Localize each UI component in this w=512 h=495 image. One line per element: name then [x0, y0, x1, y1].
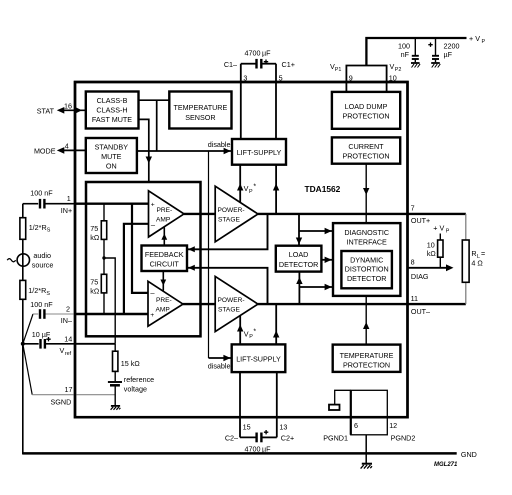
wire SGND line with pin 17 — [32, 394, 115, 396]
svg-text:4700 µF: 4700 µF — [245, 444, 272, 453]
block STANDBY MUTE ON — [86, 138, 137, 173]
svg-text:AMP: AMP — [156, 216, 171, 223]
svg-text:R: R — [471, 249, 476, 258]
svg-text:P: P — [482, 39, 486, 45]
svg-text:1/2*R: 1/2*R — [28, 286, 46, 295]
wire FEEDBACK to upper PRE-AMP — [163, 228, 165, 246]
svg-text:PRE-: PRE- — [156, 297, 172, 304]
svg-text:PGND2: PGND2 — [391, 434, 416, 443]
wire node to GND rail — [22, 344, 24, 455]
wire Vp* boost to lower POWER-STAGE — [239, 316, 241, 344]
svg-text:P: P — [446, 229, 450, 235]
svg-text:6: 6 — [354, 421, 358, 430]
capacitor 10 uF (Vref) — [32, 330, 51, 349]
wire Vp* boost to upper POWER-STAGE — [239, 165, 241, 203]
svg-text:17: 17 — [65, 385, 73, 394]
svg-text:S: S — [46, 291, 50, 297]
svg-text:POWER-: POWER- — [218, 297, 245, 304]
svg-text:voltage: voltage — [124, 385, 147, 394]
svg-text:MODE: MODE — [34, 147, 56, 156]
svg-text:C2+: C2+ — [281, 434, 294, 443]
wire PRE-AMP to POWER-STAGE (lower) — [183, 303, 215, 305]
svg-text:1/2*R: 1/2*R — [29, 223, 47, 232]
substrate contact — [329, 405, 340, 410]
svg-text:LIFT-SUPPLY: LIFT-SUPPLY — [237, 148, 282, 157]
mute arrow into input stage — [146, 157, 152, 164]
svg-text:V: V — [244, 329, 249, 338]
svg-text:FEEDBACK: FEEDBACK — [145, 250, 184, 259]
svg-text:ref: ref — [65, 351, 72, 357]
capacitor 2200 uF reservoir — [428, 38, 459, 62]
wire pad to GND rail — [365, 435, 367, 454]
svg-text:16: 16 — [64, 101, 72, 110]
pin 10 lead into LOAD DUMP — [386, 82, 388, 92]
wire GND rail — [23, 452, 457, 455]
svg-text:FAST MUTE: FAST MUTE — [92, 115, 132, 124]
svg-text:IN–: IN– — [61, 316, 72, 325]
node common input — [21, 342, 25, 346]
svg-text:CLASS-H: CLASS-H — [96, 106, 127, 115]
svg-text:µF: µF — [444, 50, 453, 59]
wire OUT+ from POWER-STAGE to pin 7 — [258, 213, 408, 215]
wire PRE-AMP to POWER-STAGE (upper) — [184, 213, 215, 215]
source resistor 1/2*Rs (upper) — [20, 204, 51, 240]
block LOAD DETECTOR — [276, 246, 322, 272]
wire lower PRE-AMP inverting input from IN+ — [132, 204, 148, 293]
resistor 10 kOhm pull-up with + Vp — [427, 224, 450, 268]
svg-text:+: + — [151, 202, 155, 209]
ground for 2200 uF — [431, 63, 440, 68]
svg-text:audio: audio — [33, 251, 51, 260]
op-amp POWER-STAGE lower — [215, 276, 258, 331]
svg-text:1: 1 — [67, 194, 71, 203]
block DIAGNOSTIC INTERFACE — [333, 223, 400, 296]
ground for reference — [111, 405, 120, 407]
svg-text:=: = — [481, 249, 485, 258]
svg-text:2: 2 — [66, 305, 70, 314]
wire pin 5 C1+ — [275, 64, 277, 139]
wire divider mid node — [103, 239, 105, 274]
wire FAST MUTE output — [139, 119, 149, 182]
block CURRENT PROTECTION — [332, 137, 400, 163]
svg-text:PGND1: PGND1 — [323, 434, 348, 443]
svg-text:CLASS-B: CLASS-B — [97, 96, 128, 105]
wire branch to DIAGNOSTIC INTERFACE (lower) — [299, 286, 333, 288]
svg-text:LIFT-SUPPLY: LIFT-SUPPLY — [236, 355, 281, 364]
svg-text:V: V — [244, 184, 249, 193]
svg-text:STANDBY: STANDBY — [95, 143, 129, 152]
svg-text:OUT–: OUT– — [411, 307, 430, 316]
wire pin 13 C2+ — [276, 372, 278, 437]
wire OUT- from POWER-STAGE to pin 11 — [258, 303, 408, 305]
svg-text:STAGE: STAGE — [218, 307, 240, 314]
wire IN+ line with pin 1 — [45, 203, 75, 205]
resistor 15 kOhm — [113, 344, 141, 372]
svg-text:V: V — [60, 346, 65, 355]
svg-text:P2: P2 — [395, 67, 402, 73]
svg-text:kΩ: kΩ — [427, 249, 437, 258]
svg-text:13: 13 — [279, 423, 287, 432]
wire jog to Vref — [104, 258, 115, 344]
IC main outline TDA1562 — [75, 82, 408, 417]
block CLASS-B CLASS-H FAST MUTE — [86, 92, 139, 129]
svg-text:10 µF: 10 µF — [32, 330, 51, 339]
stub to substrate contact — [335, 390, 351, 404]
svg-text:S: S — [47, 228, 51, 234]
svg-text:75: 75 — [90, 278, 98, 287]
capacitor 100 nF decoupling — [398, 38, 419, 62]
svg-text:8: 8 — [411, 257, 415, 266]
wire Vp1/Vp2 pad — [346, 66, 386, 83]
svg-text:GND: GND — [461, 450, 477, 459]
block LIFT-SUPPLY upper — [232, 139, 286, 165]
svg-text:4700 µF: 4700 µF — [245, 49, 272, 58]
wire down to common node — [22, 299, 24, 344]
arrow into LIFT-SUPPLY — [224, 148, 231, 154]
svg-text:100 nF: 100 nF — [30, 189, 53, 198]
svg-text:TDA1562: TDA1562 — [305, 184, 341, 194]
wire pin 15 C2- — [239, 372, 241, 437]
wire disable vertical run — [208, 151, 210, 358]
wire upper PRE-AMP inverting input from IN- — [124, 224, 149, 314]
svg-text:PRE-: PRE- — [157, 207, 173, 214]
svg-text:PROTECTION: PROTECTION — [342, 112, 389, 121]
wire LOAD DETECTOR to DIAGNOSTIC INTERFACE — [321, 259, 333, 261]
svg-text:POWER-: POWER- — [218, 207, 245, 214]
svg-text:4 Ω: 4 Ω — [471, 259, 483, 268]
svg-text:100 nF: 100 nF — [30, 300, 53, 309]
block TEMPERATURE SENSOR — [169, 92, 231, 129]
pin 6 lead (thick left edge) — [350, 390, 352, 435]
capacitor 100 nF (IN+) — [30, 189, 53, 209]
svg-text:MGL271: MGL271 — [434, 462, 458, 468]
svg-text:reference: reference — [124, 375, 154, 384]
svg-text:OUT+: OUT+ — [411, 216, 430, 225]
wire disable (lower) — [209, 357, 232, 359]
svg-text:11: 11 — [411, 294, 418, 303]
svg-text:disable: disable — [208, 140, 231, 149]
svg-text:nF: nF — [401, 50, 410, 59]
wire diagonal to SGND — [23, 344, 32, 395]
block TEMPERATURE PROTECTION — [333, 345, 401, 372]
svg-text:15: 15 — [243, 423, 251, 432]
svg-text:DIAG: DIAG — [411, 272, 429, 281]
svg-text:P1: P1 — [335, 67, 342, 73]
wire OUT+ into LOAD DETECTOR — [298, 214, 300, 246]
svg-text:+ V: + V — [433, 224, 444, 233]
svg-text:PROTECTION: PROTECTION — [342, 152, 389, 161]
block LOAD DUMP PROTECTION — [332, 92, 400, 129]
svg-text:7: 7 — [411, 204, 415, 213]
capacitor 100 nF (IN-) — [30, 300, 53, 319]
wire OUT- down to lower LIFT-SUPPLY — [275, 304, 277, 344]
svg-text:ON: ON — [106, 162, 117, 171]
capacitor C2 4700uF — [240, 430, 277, 453]
pin 16 STAT line — [37, 101, 86, 115]
svg-text:source: source — [32, 261, 54, 270]
op-amp PRE-AMP upper — [149, 191, 185, 237]
svg-text:TEMPERATURE: TEMPERATURE — [340, 351, 394, 360]
svg-text:kΩ: kΩ — [90, 233, 100, 242]
wire disable (upper) — [137, 150, 232, 152]
wire pin 7 OUT+ — [408, 213, 466, 215]
source resistor 1/2*Rs (lower) — [20, 266, 51, 299]
svg-text:MUTE: MUTE — [101, 152, 122, 161]
svg-text:DETECTOR: DETECTOR — [347, 274, 386, 283]
svg-text:V: V — [390, 62, 395, 71]
svg-text:C1+: C1+ — [282, 60, 295, 69]
wire +Vp drop — [366, 38, 466, 66]
svg-text:DIAGNOSTIC: DIAGNOSTIC — [344, 228, 389, 237]
svg-text:*: * — [253, 329, 256, 336]
svg-text:AMP: AMP — [156, 307, 171, 314]
pin 9 lead into LOAD DUMP — [345, 82, 347, 92]
wire pin 3 C1- — [240, 64, 242, 139]
battery reference voltage — [108, 371, 154, 405]
wire IN- line with pin 2 — [33, 313, 38, 315]
svg-text:CIRCUIT: CIRCUIT — [150, 260, 180, 269]
resistor 75 kOhm (upper) — [90, 204, 106, 242]
svg-text:P: P — [249, 189, 253, 195]
svg-text:75: 75 — [90, 224, 98, 233]
svg-text:INTERFACE: INTERFACE — [347, 238, 388, 247]
wire CURRENT PROTECTION to DIAGNOSTIC INTERFACE — [365, 164, 367, 223]
op-amp PRE-AMP lower — [148, 281, 183, 326]
svg-text:DISTORTION: DISTORTION — [345, 265, 389, 274]
wire LIFT-SUPPLY to OUT+ rail — [275, 165, 277, 214]
svg-text:14: 14 — [64, 334, 72, 343]
svg-text:C2–: C2– — [225, 434, 238, 443]
wire branch to DIAGNOSTIC INTERFACE (upper) — [299, 230, 333, 232]
block LIFT-SUPPLY lower — [232, 344, 286, 372]
block DYNAMIC DISTORTION DETECTOR — [341, 251, 392, 288]
svg-text:+ V: + V — [469, 34, 480, 43]
wire OUT- into LOAD DETECTOR — [298, 272, 300, 305]
svg-text:15 kΩ: 15 kΩ — [121, 359, 141, 368]
load resistor RL 4 Ohm — [462, 214, 485, 304]
block FEEDBACK CIRCUIT — [142, 246, 188, 272]
pin 4 MODE line — [34, 141, 86, 155]
ground for 100 nF — [411, 63, 420, 68]
svg-text:STAGE: STAGE — [218, 216, 240, 223]
svg-text:SENSOR: SENSOR — [185, 113, 215, 122]
wire pin 11 OUT- — [408, 303, 466, 305]
wire Vref line with pin 14 — [23, 343, 39, 345]
resistor 75 kOhm (lower) — [90, 274, 106, 314]
wire TEMPERATURE PROTECTION to DIAGNOSTIC INTERFACE — [365, 296, 367, 345]
op-amp POWER-STAGE upper — [215, 186, 258, 242]
pad outline pins 6 / 12 — [351, 390, 388, 435]
svg-text:+: + — [150, 312, 154, 319]
IC main outline overlay — [75, 82, 408, 417]
inner input-stage box — [86, 182, 201, 336]
svg-text:disable: disable — [208, 361, 231, 370]
wire FEEDBACK to lower PRE-AMP — [162, 271, 164, 291]
audio source — [7, 239, 53, 269]
svg-text:kΩ: kΩ — [90, 287, 100, 296]
svg-text:LOAD DUMP: LOAD DUMP — [345, 102, 388, 111]
svg-text:STAT: STAT — [37, 107, 55, 116]
svg-text:TEMPERATURE: TEMPERATURE — [174, 103, 228, 112]
svg-text:PROTECTION: PROTECTION — [343, 361, 390, 370]
svg-text:4: 4 — [65, 141, 69, 150]
capacitor C1 4700uF — [241, 49, 276, 69]
wire OUT+ feedback tap — [187, 214, 268, 249]
wire junction down to disable line — [156, 100, 158, 151]
svg-text:*: * — [253, 184, 256, 191]
svg-text:CURRENT: CURRENT — [348, 142, 384, 151]
svg-text:DETECTOR: DETECTOR — [279, 260, 318, 269]
wire CLASS-B to TEMPERATURE SENSOR — [139, 99, 170, 101]
wire OUT- feedback tap — [187, 268, 268, 304]
svg-text:SGND: SGND — [51, 397, 72, 406]
svg-text:C1–: C1– — [224, 60, 237, 69]
svg-text:DYNAMIC: DYNAMIC — [350, 256, 383, 265]
wire diagonal to IN- coupling — [23, 314, 33, 344]
wire pin 8 DIAG with arrow — [408, 267, 451, 269]
svg-text:LOAD: LOAD — [289, 250, 309, 259]
ground symbol on rail — [365, 453, 367, 463]
svg-text:12: 12 — [389, 421, 397, 430]
svg-text:IN+: IN+ — [61, 206, 72, 215]
